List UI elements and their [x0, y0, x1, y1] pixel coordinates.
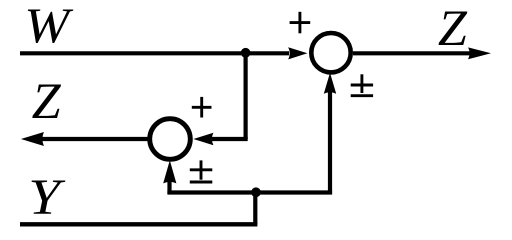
- svg-text:W: W: [24, 0, 74, 53]
- wire up into S1 bottom: [328, 92, 332, 194]
- wire into summing junction S2: [212, 137, 248, 141]
- sign ± at S1: [351, 74, 373, 95]
- svg-text:Y: Y: [28, 170, 65, 226]
- wire W input line: [20, 51, 289, 55]
- sign ± at S2: [190, 160, 213, 182]
- arrowhead into summing junction S2: [193, 133, 213, 145]
- svg-text:Z: Z: [32, 74, 62, 130]
- label Z (left output): [32, 74, 62, 130]
- wire mid horizontal line: [167, 190, 332, 194]
- summing junction S1: [311, 33, 350, 72]
- arrowhead Z left output: [21, 132, 44, 146]
- label Y: [28, 170, 65, 226]
- label W: [24, 0, 74, 53]
- sign + at S1: [290, 12, 311, 34]
- sign + at S2: [192, 97, 212, 118]
- wire up into S2 bottom: [167, 178, 171, 194]
- wire S2 to Z output: [40, 137, 148, 141]
- arrowhead into summing junction S1: [288, 47, 307, 59]
- node junction dot on W line: [241, 48, 251, 58]
- wire Y input line: [20, 222, 257, 226]
- wire S1 to Z output: [353, 51, 470, 55]
- label Z (right output): [438, 1, 468, 57]
- svg-text:Z: Z: [438, 1, 468, 57]
- summing junction S2: [150, 119, 191, 160]
- wire vertical drop from W line: [244, 53, 248, 139]
- arrowhead Z output: [468, 47, 491, 59]
- arrowhead into S2 bottom: [163, 160, 176, 183]
- node junction dot on mid line: [251, 187, 261, 197]
- arrowhead into S1 bottom: [324, 73, 336, 94]
- wire vertical Y to mid node: [253, 192, 257, 224]
